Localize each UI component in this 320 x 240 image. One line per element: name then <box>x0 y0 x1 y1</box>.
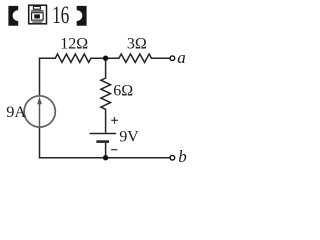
svg-text:6Ω: 6Ω <box>113 83 133 100</box>
svg-text:b: b <box>178 147 187 166</box>
svg-text:a: a <box>177 48 186 67</box>
svg-text:16: 16 <box>52 2 69 29</box>
svg-text:3Ω: 3Ω <box>127 36 147 53</box>
svg-text:9A: 9A <box>6 102 26 121</box>
svg-text:12Ω: 12Ω <box>60 36 88 53</box>
svg-text:9V: 9V <box>119 129 139 146</box>
